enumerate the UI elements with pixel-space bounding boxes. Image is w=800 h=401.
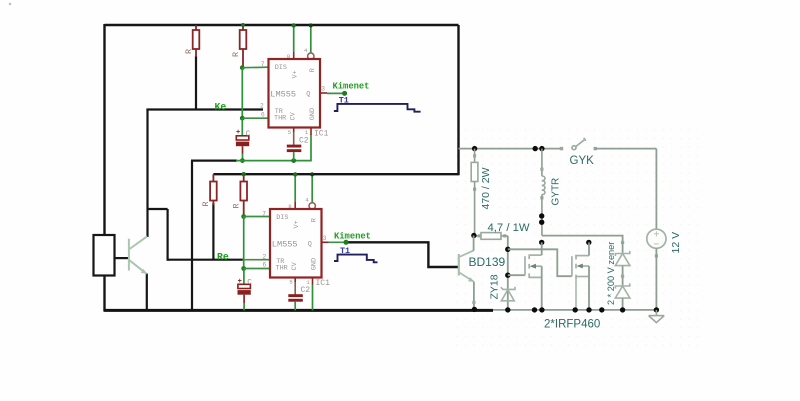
svg-text:470 / 2W: 470 / 2W bbox=[480, 167, 492, 209]
transistor BD139 (NPN) bbox=[459, 251, 474, 282]
svg-text:IC1: IC1 bbox=[314, 129, 329, 138]
wire emitter drop of left transistor bbox=[146, 274, 148, 311]
stray mark top-left bbox=[9, 3, 11, 5]
svg-text:ZY18: ZY18 bbox=[489, 274, 501, 299]
wire timing node 2 vertical bbox=[243, 217, 245, 269]
wire TR1 drop to transistor collector bbox=[146, 110, 148, 238]
inversion bubble pin 4 bbox=[308, 53, 314, 59]
svg-text:LM555: LM555 bbox=[272, 239, 298, 249]
arrow of Q1 emitter bbox=[141, 269, 147, 274]
svg-text:Kimenet: Kimenet bbox=[333, 81, 370, 91]
wire DIS2 net bbox=[244, 216, 270, 218]
pin stub GND1 bbox=[310, 128, 312, 136]
inductor GYTR bbox=[540, 149, 545, 236]
svg-text:IC1: IC1 bbox=[316, 279, 331, 288]
ground symbol bbox=[649, 310, 665, 323]
svg-text:Q: Q bbox=[308, 240, 312, 248]
wire V+ pin 8 drop (2) bbox=[294, 174, 296, 202]
pin stub 8 (2) bbox=[294, 202, 296, 209]
waveform trace T1 bbox=[334, 104, 421, 112]
wire collector jog vertical to Re bbox=[167, 209, 169, 261]
pad zener top bbox=[621, 241, 624, 244]
node dot rail zener bbox=[620, 307, 625, 312]
wire drain bus to zener string bbox=[542, 236, 623, 243]
resistor 4,7/1W bbox=[474, 233, 508, 240]
capacitor C2 of 555 #2 bbox=[288, 282, 303, 311]
node dot rail M2 source bbox=[586, 307, 591, 312]
potentiometer block P1 bbox=[94, 235, 115, 276]
pin stub Q2 out bbox=[322, 241, 329, 243]
node junction DIS2 bbox=[241, 214, 246, 219]
wire timing node vertical bbox=[241, 68, 243, 119]
node dot rail M2 channel bbox=[573, 307, 578, 312]
node dot rail/470 bbox=[472, 146, 477, 151]
wire GND2 drop bbox=[312, 285, 314, 311]
pin stub GND2 bbox=[312, 278, 314, 285]
mosfet M1 IRFP460 bbox=[508, 242, 542, 310]
svg-text:THR: THR bbox=[276, 265, 288, 273]
arrow of BD139 emitter bbox=[468, 277, 474, 282]
wire V+ rail of second 555 bbox=[213, 173, 458, 175]
mosfet M2 IRFP460 bbox=[508, 242, 589, 310]
wire base lead of left transistor bbox=[115, 257, 130, 259]
wire THR1 net bbox=[242, 117, 268, 119]
node junction C2 bottom bbox=[291, 158, 296, 163]
capacitor C (polarized) of 555 #2 bbox=[238, 269, 251, 311]
wire right side of frame bbox=[457, 25, 459, 175]
wire GND1 drop to bottom rail bbox=[191, 161, 193, 311]
svg-text:Kimenet: Kimenet bbox=[334, 231, 371, 241]
junction on rail2 at R2' bbox=[242, 172, 246, 176]
zener D2 200V bbox=[615, 283, 630, 310]
svg-text:5: 5 bbox=[288, 129, 292, 136]
svg-text:Ke: Ke bbox=[215, 101, 227, 112]
node dot rail ZY18 bbox=[505, 307, 510, 312]
svg-text:R: R bbox=[309, 68, 317, 72]
wire LT ground rail bbox=[493, 309, 656, 311]
svg-text:2*IRFP460: 2*IRFP460 bbox=[544, 319, 600, 331]
wire R1' black drop to Re bbox=[212, 203, 214, 260]
pin stub CV1 bbox=[293, 128, 295, 133]
svg-text:C2: C2 bbox=[301, 286, 311, 295]
svg-text:12 V: 12 V bbox=[670, 232, 682, 254]
svg-text:C2: C2 bbox=[299, 136, 309, 145]
svg-text:C: C bbox=[247, 279, 252, 287]
wire TR2 green part bbox=[243, 259, 271, 261]
wire GND1 net green bbox=[236, 135, 311, 161]
wire ground bottom rail (black) bbox=[104, 309, 494, 312]
node dot rail c bbox=[599, 307, 604, 312]
svg-text:THR: THR bbox=[274, 115, 286, 123]
svg-text:3: 3 bbox=[321, 86, 325, 93]
wire Kimenet1 bbox=[327, 92, 345, 94]
arrow of M2 body bbox=[576, 264, 582, 269]
node dot drain M2 bbox=[586, 240, 591, 245]
junction on top rail at R2 bbox=[241, 23, 245, 27]
wire output of 555 #2 to BD139 base bbox=[346, 242, 458, 267]
capacitor C2 of 555 #1 bbox=[287, 132, 302, 161]
voltage source 12V bbox=[647, 149, 666, 310]
node dot drain M1 bbox=[539, 240, 544, 245]
svg-text:GYTR: GYTR bbox=[551, 178, 562, 206]
svg-text:7: 7 bbox=[261, 61, 265, 68]
switch GYK bbox=[560, 138, 597, 150]
pin stub CV2 bbox=[294, 278, 296, 283]
resistor R (R1' of IC1 bottom) bbox=[210, 174, 217, 205]
wire TR1 net horizontal Ke bbox=[146, 108, 263, 110]
node dot GYTR a bbox=[539, 213, 544, 218]
svg-text:2 * 200 V zener: 2 * 200 V zener bbox=[606, 242, 616, 305]
wire R1 to TR net (black drop) bbox=[195, 56, 197, 111]
wire reset pin 4 drop (2) bbox=[311, 174, 313, 202]
svg-text:LM555: LM555 bbox=[270, 89, 296, 99]
node junction DIS1 bbox=[240, 65, 245, 70]
op IC1 LM555 body #2 bbox=[270, 209, 322, 278]
wire BD139 collector up bbox=[473, 236, 475, 251]
node junction C bottom bbox=[240, 158, 245, 163]
inversion bubble pin 4 (2) bbox=[309, 203, 315, 209]
svg-text:R: R bbox=[201, 201, 211, 206]
wire collector jog horizontal bbox=[148, 208, 168, 210]
zener D1 200V bbox=[615, 242, 630, 286]
svg-text:1: 1 bbox=[306, 279, 310, 286]
svg-text:BD139: BD139 bbox=[469, 255, 506, 269]
svg-text:R: R bbox=[184, 49, 194, 54]
svg-text:GND: GND bbox=[309, 108, 317, 120]
arrow of M1 body bbox=[530, 264, 536, 269]
node dot rail source12V bbox=[654, 307, 659, 312]
wire V+ top rail bbox=[105, 24, 459, 26]
pin stub Q1 out bbox=[320, 92, 327, 94]
pad emitter bbox=[472, 301, 475, 304]
svg-text:V+: V+ bbox=[292, 70, 300, 78]
node dot gate bus upper bbox=[505, 247, 510, 252]
svg-text:6: 6 bbox=[263, 262, 267, 269]
pin stub 8 bbox=[293, 52, 295, 59]
resistor R (R1 of IC1 top) bbox=[193, 25, 200, 57]
svg-text:2: 2 bbox=[263, 253, 267, 260]
svg-text:+: + bbox=[238, 278, 242, 286]
node dot rail/GYTR bbox=[539, 146, 544, 151]
svg-text:GND: GND bbox=[311, 258, 319, 270]
svg-text:CV: CV bbox=[289, 111, 297, 120]
transistor Q1 (left, NPN) bbox=[129, 236, 147, 273]
svg-text:6: 6 bbox=[261, 111, 265, 118]
capacitor C (polarized) of 555 #1 bbox=[236, 118, 249, 160]
svg-text:Re: Re bbox=[217, 252, 229, 263]
svg-text:4: 4 bbox=[305, 197, 309, 204]
svg-text:R: R bbox=[232, 203, 242, 208]
node junction pin8 rail bbox=[292, 23, 296, 27]
node Kimenet2 bbox=[344, 240, 349, 245]
node dot rail M1 source bbox=[539, 307, 544, 312]
node junction pin4 rail bbox=[309, 23, 313, 27]
node junction pin4 rail2 bbox=[310, 172, 314, 176]
node junction THR2 bbox=[241, 266, 246, 271]
resistor R (R2 of IC1 top) bbox=[240, 25, 247, 68]
svg-text:R: R bbox=[231, 52, 241, 57]
svg-text:Q: Q bbox=[306, 90, 310, 98]
node dot rail b bbox=[532, 307, 537, 312]
node junction THR1 bbox=[240, 116, 245, 121]
resistor 470/2W bbox=[471, 149, 478, 236]
zener ZY18 bbox=[501, 283, 515, 310]
resistor R (R2' of IC1 bottom) bbox=[240, 174, 247, 216]
underline of T1 bbox=[339, 103, 349, 105]
wire GND1 net black part bbox=[191, 160, 237, 162]
underline of T1 (2) bbox=[340, 253, 350, 255]
node Kimenet1 bbox=[342, 91, 347, 96]
svg-text:5: 5 bbox=[289, 279, 293, 286]
svg-text:R: R bbox=[310, 218, 318, 222]
wire BD139 emitter down bbox=[473, 282, 475, 310]
svg-text:3: 3 bbox=[323, 235, 327, 242]
wire Re net horizontal (black part) bbox=[168, 259, 244, 261]
svg-text:DIS: DIS bbox=[275, 64, 287, 72]
wire DIS1 net bbox=[242, 66, 268, 69]
svg-text:+: + bbox=[236, 129, 240, 137]
wire Kimenet2 bbox=[329, 241, 347, 243]
waveform trace T1 (2) bbox=[334, 255, 378, 263]
pad between zeners bbox=[621, 275, 624, 278]
wire LT top rail left part bbox=[459, 148, 562, 150]
wire left rail upper bbox=[103, 24, 105, 236]
svg-text:4,7 / 1W: 4,7 / 1W bbox=[488, 222, 530, 234]
wire LT top rail right part bbox=[595, 148, 656, 150]
node dot 470-4,7 junction bbox=[471, 233, 476, 238]
wire reset pin 4 drop bbox=[310, 25, 312, 53]
svg-text:2: 2 bbox=[260, 103, 264, 110]
node dot GYTR b bbox=[539, 220, 544, 225]
wire left rail lower bbox=[103, 276, 105, 312]
wire gate bus vertical bbox=[507, 236, 509, 283]
wire V+ pin 8 drop bbox=[293, 25, 295, 52]
svg-text:V+: V+ bbox=[293, 220, 301, 228]
svg-text:1: 1 bbox=[305, 129, 309, 136]
svg-text:4: 4 bbox=[304, 47, 308, 54]
op IC1 LM555 body #1 bbox=[269, 59, 321, 128]
node dot emitter/rail bbox=[472, 307, 477, 312]
wire THR2 net bbox=[244, 268, 270, 270]
node dot gate bus lower bbox=[505, 273, 510, 278]
node dot rail a bbox=[533, 146, 538, 151]
svg-text:CV: CV bbox=[291, 261, 299, 270]
svg-text:DIS: DIS bbox=[276, 214, 288, 222]
svg-text:C: C bbox=[246, 131, 251, 139]
svg-text:GYK: GYK bbox=[570, 155, 595, 167]
svg-text:7: 7 bbox=[262, 210, 266, 217]
node junction pin8 rail2 bbox=[293, 172, 297, 176]
